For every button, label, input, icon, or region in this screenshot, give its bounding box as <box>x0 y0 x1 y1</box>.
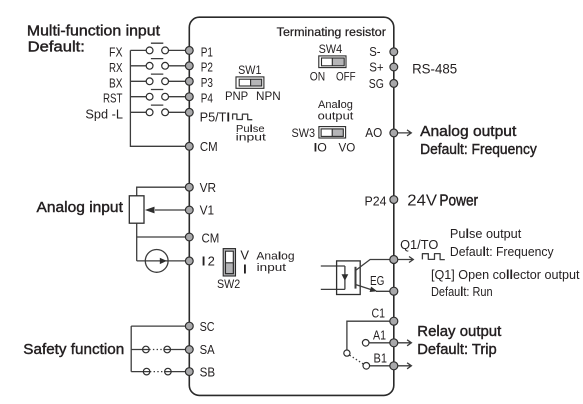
svg-text:SW1: SW1 <box>238 63 261 77</box>
svg-text:VR: VR <box>200 180 217 195</box>
svg-text:Default: Run: Default: Run <box>431 284 493 299</box>
svg-text:Terminating resistor: Terminating resistor <box>277 25 386 39</box>
svg-text:Default: Frequency: Default: Frequency <box>420 142 537 158</box>
svg-text:SW2: SW2 <box>217 277 240 291</box>
svg-text:OFF: OFF <box>336 70 356 84</box>
svg-text:A1: A1 <box>373 328 386 343</box>
svg-text:P3: P3 <box>201 75 213 90</box>
svg-text:CM: CM <box>200 139 218 154</box>
svg-text:2: 2 <box>208 254 215 269</box>
svg-text:FX: FX <box>109 44 123 59</box>
svg-text:[Q1] Open collector output: [Q1] Open collector output <box>431 267 580 282</box>
svg-text:Analog: Analog <box>256 250 294 262</box>
svg-text:VO: VO <box>339 140 356 154</box>
svg-text:SA: SA <box>200 342 215 357</box>
svg-text:SG: SG <box>369 76 384 91</box>
svg-text:SW4: SW4 <box>319 42 343 56</box>
svg-text:Default: Frequency: Default: Frequency <box>450 244 554 259</box>
svg-text:P2: P2 <box>201 60 213 75</box>
svg-text:C1: C1 <box>372 305 386 320</box>
svg-text:RX: RX <box>109 60 123 75</box>
svg-text:output: output <box>318 111 354 123</box>
svg-text:input: input <box>236 133 266 144</box>
svg-text:RST: RST <box>103 91 123 106</box>
svg-text:IO: IO <box>314 140 327 154</box>
svg-text:ON: ON <box>310 70 325 84</box>
svg-text:I: I <box>202 254 206 269</box>
svg-text:I: I <box>243 261 247 276</box>
svg-text:AO: AO <box>365 125 382 140</box>
svg-text:P4: P4 <box>201 91 213 106</box>
svg-text:Spd -L: Spd -L <box>85 107 123 122</box>
svg-text:V1: V1 <box>200 203 215 218</box>
svg-text:SC: SC <box>200 319 215 334</box>
svg-text:S-: S- <box>369 44 380 59</box>
svg-text:NPN: NPN <box>256 89 281 103</box>
svg-text:BX: BX <box>109 75 123 90</box>
svg-text:Default:: Default: <box>28 39 85 55</box>
svg-text:CM: CM <box>202 230 220 245</box>
svg-text:input: input <box>257 262 287 274</box>
svg-text:Safety function: Safety function <box>23 342 124 358</box>
svg-text:Default: Trip: Default: Trip <box>417 342 496 358</box>
svg-text:B1: B1 <box>374 351 388 366</box>
svg-text:S+: S+ <box>369 60 383 75</box>
svg-text:Q1/TO: Q1/TO <box>400 237 438 252</box>
svg-text:24V: 24V <box>407 193 437 210</box>
svg-text:SB: SB <box>200 365 216 380</box>
svg-text:Analog input: Analog input <box>37 200 123 216</box>
svg-text:Analog: Analog <box>318 99 353 111</box>
svg-text:SW3: SW3 <box>292 126 316 140</box>
svg-text:EG: EG <box>370 273 384 288</box>
svg-text:PNP: PNP <box>225 89 248 103</box>
svg-text:Analog output: Analog output <box>420 124 516 140</box>
svg-text:P5/TI: P5/TI <box>200 109 230 124</box>
svg-text:P1: P1 <box>201 44 213 59</box>
svg-text:Power: Power <box>439 193 478 210</box>
svg-text:P24: P24 <box>365 193 387 208</box>
svg-text:RS-485: RS-485 <box>412 62 457 77</box>
svg-text:Pulse output: Pulse output <box>450 226 522 241</box>
svg-text:Relay output: Relay output <box>417 324 501 340</box>
svg-text:Multi-function input: Multi-function input <box>27 23 160 39</box>
